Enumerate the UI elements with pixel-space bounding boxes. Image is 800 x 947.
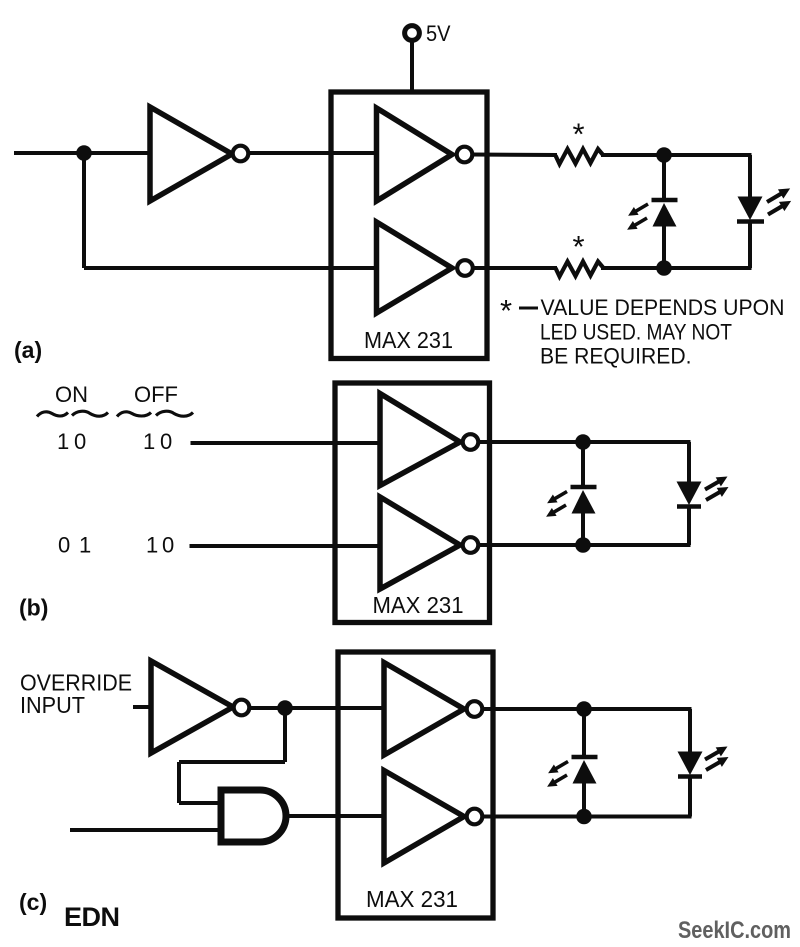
wire node E down [283, 708, 287, 762]
MAX231 box (c) [338, 652, 493, 918]
wire node F to right branch (c) [584, 707, 692, 711]
svg-text:10: 10 [146, 533, 174, 558]
svg-text:(c): (c) [19, 889, 47, 915]
wire row 2 (a) to MAX231 box [84, 266, 380, 270]
svg-text:OFF: OFF [134, 382, 178, 407]
wire jog left [179, 760, 285, 764]
5V power terminal [405, 26, 420, 41]
svg-text:*: * [573, 229, 585, 264]
node A [656, 147, 672, 163]
svg-text:10: 10 [57, 429, 86, 454]
wire node B to right branch [664, 266, 752, 270]
svg-text:BE REQUIRED.: BE REQUIRED. [540, 344, 692, 369]
note dash [519, 307, 538, 310]
svg-text:MAX 231: MAX 231 [373, 592, 464, 618]
MAX231 box (b) [335, 383, 490, 623]
svg-text:10: 10 [143, 429, 172, 454]
svg-text:*: * [500, 293, 512, 328]
svg-text:INPUT: INPUT [20, 692, 85, 718]
svg-text:MAX 231: MAX 231 [364, 327, 453, 353]
input wire row 1 (b) [191, 441, 383, 445]
squiggle under OFF 2 [156, 411, 193, 416]
driver U5A triangle [384, 663, 482, 756]
squiggle under ON 2 [72, 411, 108, 416]
wire node C to right branch (b) [583, 440, 691, 444]
input stub to inverter U4 [133, 705, 153, 709]
wire U2A output to resistor R1 [472, 153, 557, 158]
wire G1 output to MAX231 (c) [287, 814, 386, 818]
wire U3A output to node C [478, 440, 583, 444]
wire J1 down to row 2 [82, 153, 86, 268]
MAX231 box (a) [331, 92, 487, 359]
wire R1 to node A [601, 153, 664, 157]
squiggle under ON 1 [37, 412, 68, 417]
svg-text:EDN: EDN [64, 902, 120, 932]
node B [656, 260, 672, 276]
wire node G to right branch (c) [584, 815, 692, 819]
wire U4 output to MAX231 (c) [249, 706, 386, 710]
driver U2A triangle [377, 108, 473, 201]
LED D4 (right, section b) [677, 442, 732, 545]
LED D1 (left, section a) [625, 155, 678, 268]
svg-text:SeekIC.com: SeekIC.com [678, 917, 791, 944]
input wire to AND gate input 2 [70, 828, 222, 832]
wire jog to AND gate input 1 [179, 801, 222, 805]
node G [576, 809, 592, 825]
LED D6 (right, section c) [678, 709, 732, 817]
svg-text:(b): (b) [19, 595, 48, 621]
node C [575, 434, 591, 450]
svg-text:LED USED. MAY NOT: LED USED. MAY NOT [540, 320, 732, 345]
svg-text:*: * [573, 117, 585, 152]
svg-text:VALUE DEPENDS UPON: VALUE DEPENDS UPON [541, 295, 785, 320]
svg-text:5V: 5V [426, 21, 451, 46]
input wire row 2 (b) [190, 544, 383, 548]
svg-text:(a): (a) [14, 337, 42, 363]
wire U5A output to node F [482, 707, 584, 711]
AND gate G1 [221, 790, 286, 842]
wire 5V terminal to MAX231 box (a) [410, 42, 414, 94]
wire U3B output to node D [478, 543, 583, 547]
driver U2B triangle [377, 222, 473, 313]
resistor R1 [556, 149, 604, 164]
inverter U1 [150, 107, 248, 201]
wire U2B output to resistor R2 [473, 266, 557, 270]
input wire row 1 (a) [14, 151, 379, 155]
node J1 input junction [76, 145, 92, 161]
driver U3B triangle [380, 497, 478, 589]
node E override junction [277, 700, 293, 716]
resistor R2 [556, 262, 604, 277]
squiggle under OFF 1 [117, 412, 151, 417]
svg-text:MAX 231: MAX 231 [366, 886, 458, 912]
wire node D to right branch (b) [583, 543, 691, 547]
LED D5 (left, section c) [545, 709, 598, 817]
inverter U4 [151, 661, 249, 753]
driver U3A triangle [380, 394, 478, 486]
wire R2 to node B [601, 266, 664, 270]
node F [576, 701, 592, 717]
wire node A to right branch [664, 153, 752, 157]
LED D3 (left, section b) [544, 442, 597, 545]
LED D2 (right, section a) [737, 155, 794, 268]
svg-text:ON: ON [55, 382, 88, 407]
driver U5B triangle [384, 771, 482, 864]
wire U5B output to node G [482, 815, 584, 819]
wire jog down [177, 762, 181, 803]
svg-text:01: 01 [58, 533, 91, 558]
node D [575, 537, 591, 553]
